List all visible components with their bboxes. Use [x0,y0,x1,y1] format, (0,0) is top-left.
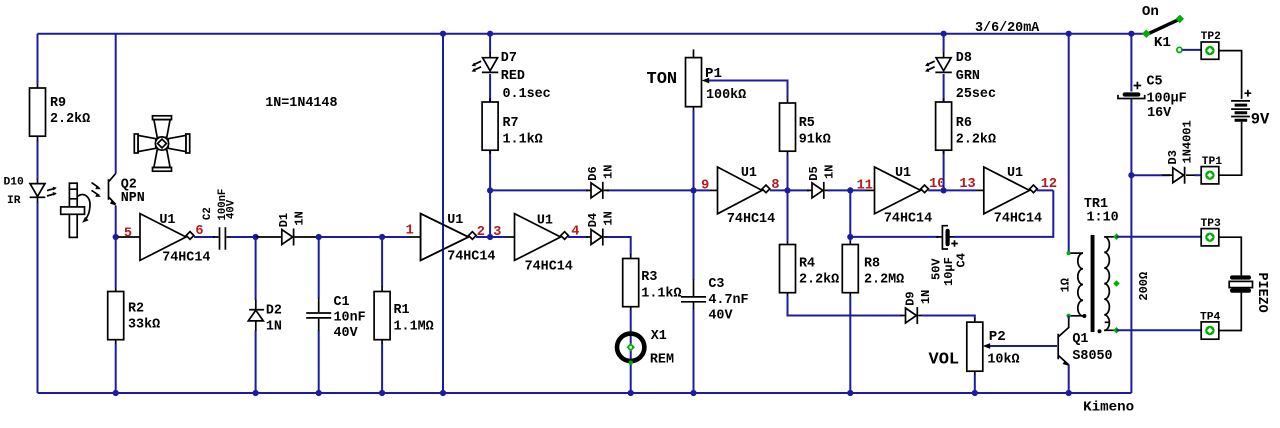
svg-text:D5: D5 [807,166,821,180]
svg-text:3: 3 [493,225,501,240]
wire U1D out to D5 [770,189,809,191]
svg-text:1Ω: 1Ω [1059,278,1073,292]
svg-text:1N: 1N [602,211,616,225]
capacitor C3 [681,277,749,323]
svg-text:R9: R9 [50,96,66,111]
svg-text:100kΩ: 100kΩ [706,88,746,103]
svg-text:91kΩ: 91kΩ [799,132,831,147]
wire TR primary column [1068,34,1070,253]
capacitor C1 [306,295,365,341]
wire D7 column [489,34,491,237]
piezo element [1229,273,1269,313]
wire top rail [38,33,1145,35]
svg-text:2.2kΩ: 2.2kΩ [799,273,839,288]
wire U1B power column [442,34,444,393]
svg-text:VOL: VOL [929,351,960,370]
svg-text:R4: R4 [799,257,815,272]
svg-text:Kimeno: Kimeno [1083,400,1134,416]
svg-text:K1: K1 [1154,35,1171,51]
resistor R6 [936,98,996,154]
svg-text:100µF: 100µF [1147,92,1187,107]
resistor R8 [842,241,904,297]
node C2/D1/D2 [253,234,259,240]
capacitor C4 [930,226,969,286]
wire C5 column [1130,34,1132,393]
battery 9V [1231,90,1270,129]
svg-text:5: 5 [124,226,132,241]
svg-text:TP2: TP2 [1201,31,1222,43]
svg-text:1N: 1N [266,320,282,335]
switch K1 [1142,4,1184,53]
svg-text:2.2MΩ: 2.2MΩ [864,273,904,288]
svg-text:2.2kΩ: 2.2kΩ [50,112,90,127]
node pin9 [690,187,696,193]
node pin3 R7 [487,234,493,240]
diode D2 [248,300,282,335]
wire left rail upper segment [37,34,39,84]
svg-text:10kΩ: 10kΩ [987,353,1019,368]
wire Q2 column upper [115,34,117,174]
svg-text:D7: D7 [501,51,517,66]
wire node to R1 node [319,236,409,238]
node D1/C1 [316,234,322,240]
svg-text:R1: R1 [394,303,410,318]
junction TR primary column top [1066,31,1072,37]
resistor R2 [108,288,160,345]
LED D7 [472,51,551,102]
op-amp U1 inverter A (pins 5-6) [118,213,210,266]
wire TP2 to battery [1219,51,1242,99]
svg-text:TP4: TP4 [1200,311,1221,323]
svg-text:D6: D6 [586,166,600,180]
wire D5 to U1E [828,189,866,191]
test point TP1 [1201,156,1222,184]
op-amp U1 inverter D (pins 9-8) [694,166,780,227]
wire TR primary bottom to Q1 [1068,316,1070,319]
wire D8 column [943,34,945,191]
wire TR secondary bottom to TP4 [1117,329,1203,331]
diode D6 [586,165,616,199]
svg-text:TON: TON [647,70,678,89]
svg-text:40V: 40V [334,326,359,341]
wire D4 to R3 [607,237,631,255]
svg-text:IR: IR [7,195,21,207]
op-amp U1 inverter B (pins 1-2) [406,213,496,265]
svg-text:1.1kΩ: 1.1kΩ [503,132,543,147]
diode D1 [256,211,319,245]
svg-text:0.1sec: 0.1sec [503,87,551,102]
svg-text:On: On [1142,4,1159,20]
wire D6 row [490,189,693,191]
capacitor C2 [202,189,237,250]
transformer TR1 [1059,197,1152,334]
junction P2 bottom [972,390,978,396]
wire C1 column [318,237,320,393]
wire C2 to node D2 [230,236,256,238]
wire Q2 emitter to node5 [115,206,117,238]
svg-text:C2: C2 [202,207,214,220]
node pin8/R4 [784,187,790,193]
svg-text:U1: U1 [537,213,553,228]
svg-text:NPN: NPN [121,191,145,206]
svg-text:74HC14: 74HC14 [994,212,1042,227]
junction X1 bottom [628,390,634,396]
svg-text:74HC14: 74HC14 [447,250,495,265]
LED D8 [925,51,996,102]
resistor R4 [780,241,840,297]
resistor R1 [374,287,434,345]
svg-text:D10: D10 [4,177,25,189]
svg-text:R5: R5 [799,116,815,131]
svg-text:3/6/20mA: 3/6/20mA [975,21,1040,36]
svg-text:GRN: GRN [956,69,980,84]
wire left rail R9-D10 segment [37,140,39,179]
svg-text:1N=1N4148: 1N=1N4148 [265,96,337,111]
svg-text:1N: 1N [919,290,933,304]
svg-text:40V: 40V [225,199,237,219]
svg-text:11: 11 [857,179,873,194]
svg-text:16V: 16V [1147,106,1172,121]
svg-text:R3: R3 [641,270,657,285]
fan symbol [134,116,189,171]
svg-text:D1: D1 [277,213,291,227]
wire U1A out to C2 [194,236,215,238]
junction D2 bottom [253,390,259,396]
svg-text:C4: C4 [955,253,969,267]
svg-text:50V: 50V [930,258,944,280]
wire TR secondary top to TP3 [1117,236,1203,238]
wire R3 to X1 to rail [630,310,632,393]
svg-text:74HC14: 74HC14 [884,212,932,227]
svg-text:1N: 1N [602,165,616,179]
junction R8 bottom [847,390,853,396]
junction bottom R2 [113,390,119,396]
junction C1 bottom [316,390,322,396]
svg-text:TP3: TP3 [1201,218,1222,230]
wire left rail lower segment [37,202,39,393]
wire R4 column [788,190,903,315]
node pin10/R6 [941,187,947,193]
svg-text:2.2kΩ: 2.2kΩ [956,132,996,147]
svg-text:74HC14: 74HC14 [162,251,210,266]
node R8 top C4 [847,234,853,240]
wire P1 bottom to row2 [693,111,695,191]
svg-text:25sec: 25sec [956,87,996,102]
wire P1 wiper to R5 [709,81,788,100]
resistor R9 [30,84,91,141]
svg-text:1.1kΩ: 1.1kΩ [641,286,681,301]
svg-text:1N4001: 1N4001 [1181,120,1195,163]
svg-text:P2: P2 [989,329,1006,345]
svg-text:PIEZO: PIEZO [1254,273,1269,313]
resistor R7 [482,98,543,154]
wire P2 wiper to Q1 base [990,345,1057,347]
diode D9 [901,290,934,324]
svg-text:X1: X1 [651,329,667,344]
svg-text:1N: 1N [293,211,307,225]
op-amp U1 inverter E (pins 11-10) [875,166,946,227]
svg-text:40V: 40V [708,309,733,324]
svg-text:RED: RED [501,69,525,84]
svg-text:1:10: 1:10 [1087,211,1119,226]
svg-text:U1: U1 [159,213,175,228]
svg-text:R6: R6 [956,116,972,131]
node R1 top [379,234,385,240]
connector X1 REM [617,329,674,368]
wire U1F out [1037,189,1053,191]
wire TP4 to piezo [1219,293,1242,331]
svg-text:Q1: Q1 [1072,332,1088,347]
wire U1E out to U1F [928,189,976,191]
vibration motor symbol [61,183,90,237]
junction D7 column top [487,31,493,37]
wire D3 row [1131,174,1170,176]
diode D4 [586,211,616,245]
wire D2 column [255,237,257,393]
wire D3 to TP1 [1195,174,1203,176]
transistor Q2 [92,174,145,207]
svg-text:D3: D3 [1166,150,1180,164]
svg-text:1.1MΩ: 1.1MΩ [394,320,434,335]
svg-text:R8: R8 [864,257,880,272]
junction C5 column top [1128,31,1134,37]
svg-text:R2: R2 [128,301,144,316]
test point TP3 [1201,218,1222,246]
svg-text:U1: U1 [741,166,757,181]
wire Q1 emitter to rail [1068,365,1070,394]
svg-text:C5: C5 [1147,74,1163,89]
junction R7 bottom row2 [487,187,493,193]
svg-text:TP1: TP1 [1202,156,1223,168]
svg-text:9: 9 [701,179,709,194]
node pin11/R8 [847,187,853,193]
op-amp U1 inverter F (pins 13-12) [959,166,1057,227]
wire bottom rail [38,392,1132,394]
svg-text:D9: D9 [904,291,918,305]
wire K1 to TP2 [1182,49,1202,51]
wire battery to TP1 [1219,122,1242,175]
test point TP4 [1200,311,1221,339]
junction U1B power top [440,31,446,37]
svg-text:D8: D8 [956,51,972,66]
wire C4 to pin12 leg [954,190,1053,237]
wire C3 column [693,190,695,393]
transistor Q1 [1058,319,1112,367]
wire R5 to row2 [787,155,789,190]
op-amp U1 inverter C (pins 3-4) [515,213,580,274]
svg-text:1: 1 [406,224,414,239]
junction D3 node [1128,172,1134,178]
junction C3 bottom [690,390,696,396]
wire R1 column [381,237,383,393]
wire U1C out to D4 [568,236,588,238]
svg-text:10µF: 10µF [942,257,956,286]
node pin5 junction [113,234,119,240]
junction Q1 emitter bottom [1066,390,1072,396]
svg-text:U1: U1 [1007,166,1023,181]
test point TP2 [1201,31,1222,59]
wire U1B out to U1C [476,236,506,238]
svg-text:74HC14: 74HC14 [525,259,573,274]
svg-text:R7: R7 [503,116,519,131]
svg-text:D4: D4 [586,213,600,227]
potentiometer P2 [967,318,1020,375]
potentiometer P1 [686,49,747,111]
svg-text:4.7nF: 4.7nF [708,293,748,308]
wire R8 column [849,190,851,393]
junction U1B power bottom [440,390,446,396]
svg-text:9V: 9V [1251,110,1270,128]
svg-text:10nF: 10nF [334,311,366,326]
wire P2 bottom [974,375,976,393]
capacitor C5 [1118,74,1187,121]
wire C4 row [850,236,939,238]
svg-text:C1: C1 [334,295,350,310]
svg-text:C3: C3 [708,277,724,292]
svg-text:200Ω: 200Ω [1137,272,1151,301]
svg-text:74HC14: 74HC14 [727,212,775,227]
wire TP3 to piezo [1219,237,1242,275]
diode D5 [807,165,837,199]
svg-text:33kΩ: 33kΩ [128,317,160,332]
junction R1 bottom [379,390,385,396]
svg-text:U1: U1 [895,166,911,181]
resistor R5 [780,99,831,155]
svg-text:13: 13 [959,177,975,192]
svg-text:S8050: S8050 [1072,349,1112,364]
svg-text:U1: U1 [447,213,463,228]
junction D8 column top [941,31,947,37]
resistor R3 [623,254,682,311]
diode D10 (IR LED) [4,177,57,207]
wire D9 to P2 [922,316,975,319]
wire R2 column [115,237,117,393]
svg-text:REM: REM [650,353,674,368]
diode D3 [1162,120,1197,183]
svg-text:1N: 1N [823,165,837,179]
svg-text:D2: D2 [266,304,282,319]
